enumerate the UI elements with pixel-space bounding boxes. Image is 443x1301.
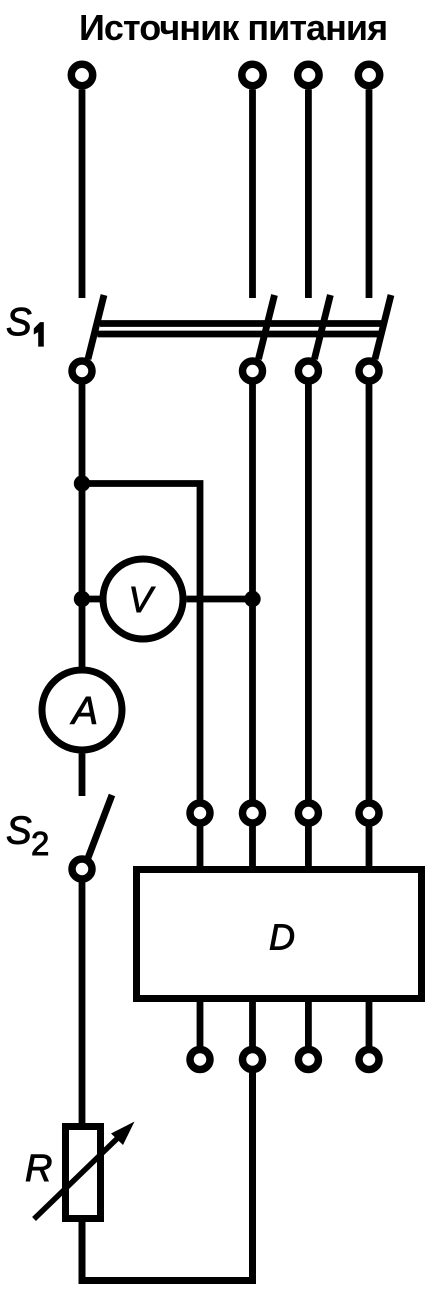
node: junction phase1 / voltmeter tap xyxy=(74,591,90,607)
label D xyxy=(269,917,295,958)
switch S1 pole2 contact circle xyxy=(243,361,263,381)
node: junction voltmeter / phase2 xyxy=(244,591,260,607)
wire: D output stub 4 xyxy=(366,999,373,1050)
wire: D output stub 2 xyxy=(249,999,256,1050)
wire: ammeter down to S2 xyxy=(79,754,86,797)
device D box xyxy=(137,870,422,999)
svg-text:R: R xyxy=(25,1148,52,1190)
wire: D output stub 3 xyxy=(305,999,312,1050)
terminal T3 xyxy=(298,64,319,85)
wire: S1 pole4 down to D input 4 xyxy=(366,381,373,803)
label S2 xyxy=(6,810,49,863)
voltmeter V xyxy=(103,559,183,639)
D input terminal 2 xyxy=(243,803,263,823)
wire: S1 pole2 down to D input 2 xyxy=(249,381,256,803)
D output terminal 3 xyxy=(298,1050,318,1070)
svg-text:Источник питания: Источник питания xyxy=(79,7,387,48)
svg-text:A: A xyxy=(70,690,98,733)
node: junction phase1 / branch to D input1 xyxy=(74,475,90,491)
label S1 xyxy=(6,301,43,346)
wire: T3 down to S1 pole3 xyxy=(305,89,312,298)
resistor R arrow (variable) xyxy=(34,1130,126,1219)
D input terminal 4 xyxy=(359,803,379,823)
terminal T2 xyxy=(242,64,263,85)
wire: R down and bottom return to D output 2 xyxy=(82,1070,253,1281)
terminal T1 (power source, phase 1) xyxy=(71,64,92,85)
wire: S2 down to resistor R xyxy=(79,879,86,1126)
wire: branch from phase1 to x=200 xyxy=(82,484,200,804)
switch S1 pole1 blade xyxy=(88,295,104,359)
wire: voltmeter left lead xyxy=(82,596,101,603)
ammeter A xyxy=(42,670,122,750)
wire: D output stub 1 xyxy=(197,999,204,1050)
D input terminal 3 xyxy=(298,803,318,823)
S1 mechanical link (double line) xyxy=(100,320,385,327)
resistor R body xyxy=(66,1127,101,1219)
svg-text:S: S xyxy=(6,301,32,344)
switch S1 pole3 contact circle xyxy=(298,361,318,381)
D output terminal 1 xyxy=(190,1050,210,1070)
switch S1 pole2 blade xyxy=(259,295,275,359)
wire: S1 pole1 down to ammeter xyxy=(79,381,86,667)
switch S1 pole4 blade xyxy=(375,295,391,359)
wire: D input stub 2 xyxy=(249,823,256,869)
D input terminal 1 xyxy=(190,803,210,823)
D output terminal 4 xyxy=(359,1050,379,1070)
D output terminal 2 xyxy=(243,1050,263,1070)
wire: D input stub 1 xyxy=(197,823,204,869)
wire: D input stub 3 xyxy=(305,823,312,869)
terminal T4 xyxy=(358,64,379,85)
svg-text:2: 2 xyxy=(31,825,49,862)
svg-text:D: D xyxy=(269,917,295,958)
switch S1 pole4 contact circle xyxy=(359,361,379,381)
svg-text:V: V xyxy=(128,579,155,620)
wire: S1 pole3 down to D input 3 xyxy=(305,381,312,803)
wire: T2 down to S1 pole2 xyxy=(249,89,256,298)
wire: D input stub 4 xyxy=(366,823,373,869)
wire: T4 down to S1 pole4 xyxy=(366,89,373,298)
wire: voltmeter right lead to phase2 xyxy=(187,596,253,603)
wire: T1 down to S1 pole1 xyxy=(79,89,86,298)
switch S1 pole1 contact circle xyxy=(72,361,92,381)
switch S2 contact circle xyxy=(72,859,92,879)
label R xyxy=(25,1148,52,1190)
svg-text:S: S xyxy=(6,810,32,853)
switch S1 pole3 blade xyxy=(314,295,330,359)
switch S2 blade xyxy=(88,795,112,858)
